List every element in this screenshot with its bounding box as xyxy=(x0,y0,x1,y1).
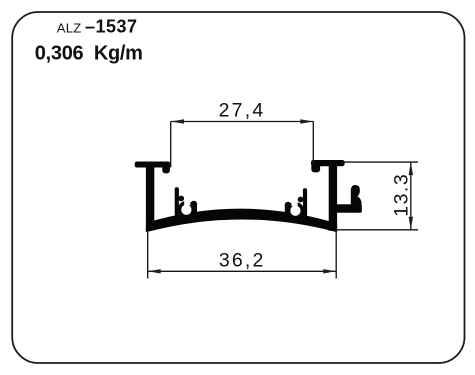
svg-text:27,4: 27,4 xyxy=(219,99,266,121)
svg-text:13.3: 13.3 xyxy=(391,173,413,217)
left leg vertical bar xyxy=(146,162,154,230)
dimension 36,2 xyxy=(148,231,337,279)
left top cap bar xyxy=(135,162,170,167)
extension line top of 13.3 xyxy=(345,161,419,163)
dimension line 36,2 xyxy=(148,270,337,272)
svg-text:36,2: 36,2 xyxy=(219,249,266,271)
right cap nub xyxy=(311,163,320,172)
right leg vertical bar xyxy=(329,160,337,230)
arrow bottom 13.3 xyxy=(409,217,413,230)
extension line right of 27,4 xyxy=(312,121,314,165)
arrow right 36,2 xyxy=(323,269,336,273)
screw boss right finger tip xyxy=(285,202,292,209)
screw boss left outer ring xyxy=(178,201,195,218)
screw boss left bump xyxy=(178,196,184,202)
extension line left of 27,4 xyxy=(170,121,172,167)
svg-text:ALZ: ALZ xyxy=(57,20,82,35)
arrow left 27,4 xyxy=(171,119,184,123)
screw boss right hole xyxy=(290,206,300,216)
screw boss right slot opening xyxy=(291,196,297,206)
wire bottom web (curved) xyxy=(146,209,336,232)
screw boss right outer ring xyxy=(287,202,304,219)
left cap nub xyxy=(162,163,170,173)
arrow right 27,4 xyxy=(300,119,313,123)
arrow left 36,2 xyxy=(148,269,161,273)
dimension 13.3 xyxy=(337,162,418,230)
right top cap bar xyxy=(311,160,344,166)
svg-text:–1537: –1537 xyxy=(85,17,138,37)
screw boss left hole xyxy=(181,205,191,215)
dimension line 27,4 xyxy=(171,121,313,123)
screw boss left right-wall xyxy=(191,204,197,215)
right outer hook arm xyxy=(337,205,362,213)
extension line bottom of 13.3 xyxy=(337,229,418,231)
arrow top 13.3 xyxy=(409,162,413,175)
screw boss right left-wall xyxy=(285,205,291,216)
profile body ALZ-1537 xyxy=(135,160,362,232)
screw boss left finger tip xyxy=(190,201,197,208)
dimension line 13.3 xyxy=(410,162,412,230)
screw boss left slot opening xyxy=(184,195,190,205)
extension line left of 36,2 xyxy=(147,232,149,279)
screw boss right bump xyxy=(298,197,304,203)
screw boss left post xyxy=(175,187,179,220)
svg-text:0,306 Kg/m: 0,306 Kg/m xyxy=(35,43,143,65)
right outer hook finger xyxy=(351,185,362,212)
dimension 27,4 xyxy=(171,121,314,167)
screw boss right post xyxy=(303,188,307,221)
extension line right of 36,2 xyxy=(335,231,337,279)
